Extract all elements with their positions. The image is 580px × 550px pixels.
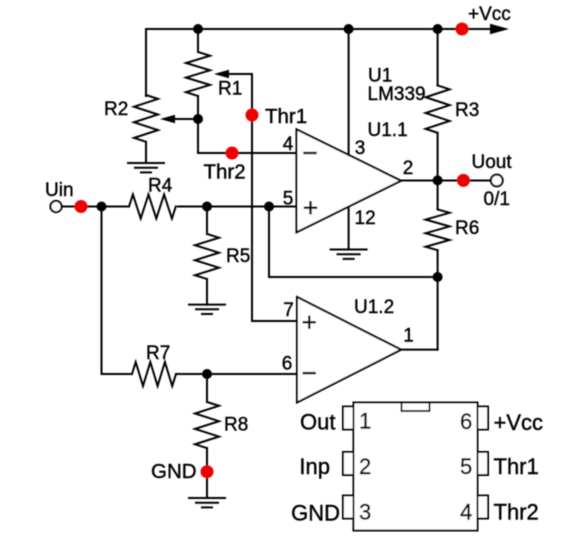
IC pin 2 box — [343, 452, 354, 475]
svg-text:Thr2: Thr2 — [494, 500, 539, 525]
label U1.1 minus input — [305, 152, 316, 154]
svg-text:3: 3 — [359, 500, 371, 525]
wire R7 to pin 6 — [176, 373, 297, 375]
wire output U1.1 to Uout — [401, 180, 491, 182]
resistor R7 — [132, 362, 176, 386]
IC pin 3 box — [343, 496, 354, 519]
svg-text:Uout: Uout — [472, 152, 513, 173]
wire top +Vcc rail — [146, 28, 505, 30]
svg-text:GND: GND — [151, 460, 197, 483]
op-amp U1.2 — [297, 297, 401, 403]
svg-text:7: 7 — [283, 300, 294, 321]
label U1.1 plus input — [305, 202, 316, 213]
node junction R1/R2 wiper — [193, 114, 203, 124]
IC pin 1 box — [343, 407, 354, 430]
node junction R6/feedback/U1.2 out — [433, 272, 443, 282]
terminal Uout circle — [491, 175, 503, 187]
resistor R5 — [195, 207, 219, 305]
resistor R3 — [426, 29, 450, 180]
svg-text:2: 2 — [359, 454, 371, 479]
svg-text:5: 5 — [460, 454, 472, 479]
svg-text:0/1: 0/1 — [484, 189, 510, 210]
svg-text:U1.1: U1.1 — [368, 120, 408, 141]
svg-text:2: 2 — [403, 158, 414, 179]
svg-text:Inp: Inp — [299, 454, 330, 479]
resistor R4 — [129, 195, 176, 219]
power arrow +Vcc — [490, 24, 509, 34]
wire pin 3 from top rail — [348, 29, 350, 155]
wire top rail to R2 — [145, 29, 147, 96]
svg-text:+Vcc: +Vcc — [468, 4, 511, 25]
node Uin red dot — [75, 200, 88, 213]
label U1.2 plus input — [304, 317, 315, 328]
resistor R2 (pot body) — [134, 95, 158, 163]
wire R1 bottom to pin 4 — [198, 119, 297, 153]
node junction R3 top rail — [433, 24, 443, 34]
wire Thr1 vertical to pin 7 — [252, 74, 297, 321]
svg-text:5: 5 — [283, 189, 294, 210]
wire R1 wiper arrow to Thr1 line — [214, 70, 252, 79]
IC package notch — [402, 403, 430, 412]
svg-text:Thr1: Thr1 — [265, 105, 307, 128]
svg-text:R7: R7 — [146, 343, 170, 364]
resistor R8 — [195, 374, 219, 498]
node junction R7/R8 — [202, 369, 212, 379]
svg-text:6: 6 — [282, 354, 293, 375]
wire R2 wiper arrow — [160, 115, 199, 124]
node +Vcc red dot — [456, 23, 469, 36]
ground under pin 12 — [331, 250, 367, 259]
terminal Uin circle — [50, 201, 61, 212]
svg-text:12: 12 — [355, 208, 376, 229]
resistor R1 (pot body) — [186, 52, 210, 119]
svg-text:R2: R2 — [104, 99, 128, 120]
node Uout red dot — [457, 174, 470, 187]
svg-text:Thr1: Thr1 — [494, 454, 539, 479]
node GND red dot — [201, 465, 214, 478]
wire R1 top — [197, 29, 199, 52]
wire pin 12 to ground — [348, 207, 350, 250]
svg-text:1: 1 — [359, 409, 371, 434]
svg-text:Thr2: Thr2 — [204, 161, 246, 184]
svg-text:R1: R1 — [218, 79, 242, 100]
node Thr2 red dot — [226, 147, 239, 160]
label U1.2 minus input — [304, 372, 315, 374]
IC pin 6 box — [478, 407, 489, 430]
node Thr1 red dot — [246, 109, 259, 122]
wire Uin branch down to R7 — [102, 207, 133, 375]
IC pin 4 box — [478, 496, 489, 519]
wire U1.2 output up to junction — [401, 277, 438, 350]
svg-text:R3: R3 — [455, 100, 479, 121]
svg-text:+Vcc: +Vcc — [494, 410, 544, 435]
svg-text:GND: GND — [291, 501, 340, 526]
node junction R5 top — [202, 202, 212, 212]
svg-text:LM339: LM339 — [368, 84, 426, 105]
svg-text:3: 3 — [355, 138, 366, 159]
ground under R2 — [128, 163, 164, 172]
svg-text:Out: Out — [300, 410, 335, 435]
resistor R6 — [426, 180, 450, 277]
node junction output R3/R6 — [433, 175, 443, 185]
svg-text:1: 1 — [403, 326, 414, 347]
node junction pin3 top rail — [344, 24, 354, 34]
svg-text:R8: R8 — [224, 415, 248, 436]
node junction Uin/R7 — [97, 202, 107, 212]
svg-text:4: 4 — [460, 500, 472, 525]
svg-text:R4: R4 — [148, 176, 173, 197]
node junction feedback on pin5 line — [264, 202, 274, 212]
svg-text:U1.2: U1.2 — [354, 297, 394, 318]
IC package body LM339 pinout — [354, 403, 478, 531]
IC pin 5 box — [478, 452, 489, 475]
ground under R5 — [189, 305, 225, 314]
svg-text:6: 6 — [460, 409, 472, 434]
wire feedback from pin5 line to R6 bottom — [269, 207, 438, 278]
svg-text:Uin: Uin — [45, 180, 74, 201]
wire Uin to pin 5 — [62, 206, 297, 208]
node junction R1 top rail — [193, 24, 203, 34]
svg-text:4: 4 — [283, 134, 294, 155]
ground under R8 — [189, 498, 225, 507]
svg-text:R5: R5 — [226, 246, 250, 267]
svg-text:R6: R6 — [455, 218, 479, 239]
op-amp U1.1 — [297, 129, 402, 232]
